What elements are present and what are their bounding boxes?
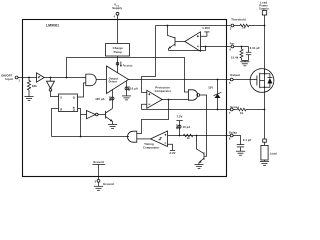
ground below load — [260, 161, 269, 165]
node IREF terminal (pin 6) — [230, 42, 235, 51]
svg-text:Ground: Ground — [103, 182, 114, 186]
resistor 15.4k — [231, 47, 243, 61]
node junction protection output — [168, 99, 170, 101]
svg-text:0.01 µF: 0.01 µF — [250, 46, 260, 50]
zener diode 15V — [208, 80, 221, 110]
wire latch Q output to AND gate — [78, 83, 86, 97]
wire protection output route to gate A2 top input — [137, 100, 169, 134]
svg-text:Comparator: Comparator — [143, 145, 160, 149]
wire VCC terminal to charge pump — [117, 15, 119, 43]
AND gate A2 mirrored — [128, 131, 137, 142]
buffer U3 input comparator — [37, 73, 45, 82]
svg-text:Ground: Ground — [93, 160, 104, 164]
wire timing comparator output to gate A2 — [137, 138, 151, 140]
resistor 30k — [27, 78, 37, 97]
svg-text:Supply: Supply — [259, 7, 269, 11]
node junction zener bottom on sense rail — [217, 109, 219, 111]
resistor 1k internal delay — [183, 134, 193, 140]
AND gate A1 — [86, 74, 96, 86]
chip boundary box — [23, 20, 227, 177]
svg-text:30k: 30k — [32, 84, 37, 88]
node junction feed to NAND rail — [66, 77, 68, 79]
wire 3.3V reference to timing comparator bottom input — [168, 144, 176, 155]
resistor 1k external sense — [233, 108, 264, 115]
wire inverter U6 to Q3 base — [98, 114, 105, 116]
node junction threshold drain rail — [264, 25, 266, 27]
svg-text:3.3V: 3.3V — [170, 151, 176, 155]
ground below delay capacitor — [236, 151, 245, 155]
node ON/OFF Input terminal (pin 1) — [1, 73, 20, 82]
wire sense rail — [142, 109, 231, 111]
svg-text:1k: 1k — [242, 26, 246, 30]
svg-text:Supply: Supply — [112, 6, 122, 10]
svg-text:1k: 1k — [187, 136, 191, 140]
svg-text:15V: 15V — [208, 86, 213, 90]
svg-text:Delay: Delay — [229, 131, 237, 135]
current source 10uA driver pulldown — [125, 81, 138, 96]
SR latch U5 — [59, 94, 78, 112]
svg-text:1.25V: 1.25V — [202, 26, 210, 30]
wire inverter to latch S input — [51, 91, 59, 96]
svg-text:7.5V: 7.5V — [177, 114, 183, 118]
node junction IREF emitter return — [205, 46, 207, 48]
wire T1 emitter return to IREF line — [169, 47, 206, 51]
wire lower rail to gate A2 — [52, 136, 129, 138]
ground below driver pulldown — [122, 96, 131, 100]
svg-text:Threshold: Threshold — [231, 17, 246, 21]
wire RC to ground — [242, 61, 249, 62]
wire threshold net W1 — [156, 25, 231, 27]
node Load Power Supply terminal — [259, 0, 269, 15]
svg-text:Output: Output — [109, 76, 119, 80]
svg-text:LM9061: LM9061 — [46, 24, 59, 28]
wire drain rail — [264, 15, 266, 74]
capacitor 0.1uF delay — [233, 136, 252, 152]
ground earth below ground pin — [94, 186, 103, 190]
wire buffer output to AND gate A1 — [44, 77, 86, 79]
wire protection comparator output to NAND — [162, 99, 188, 101]
wire IREF line to comparator bottom input — [201, 46, 231, 48]
transistor Q4 delay discharge NPN — [197, 136, 205, 165]
svg-text:Output: Output — [230, 73, 240, 77]
transistor Q1 external power MOSFET — [250, 69, 274, 93]
wire W1 down-left to protection comparator plus input — [142, 26, 156, 93]
node Ground terminal (pin 3) — [95, 179, 114, 186]
wire NAND feed rail — [67, 58, 189, 93]
transistor Q3 clamp NPN — [106, 108, 113, 124]
wire output to MOSFET gate — [233, 79, 257, 81]
wire NAND output to Q4 base — [200, 95, 207, 156]
wire sense rail to protection comparator minus input — [142, 104, 147, 109]
node load connector square — [263, 139, 267, 142]
wire source rail — [264, 92, 266, 139]
svg-text:S: S — [60, 95, 62, 99]
svg-text:Load: Load — [270, 152, 277, 156]
ground below Q3 — [108, 124, 117, 128]
current source 100uA — [95, 89, 114, 108]
svg-text:Charge: Charge — [113, 46, 124, 50]
svg-text:15.4k: 15.4k — [231, 56, 239, 60]
transistor T1 threshold sense — [168, 26, 185, 51]
node internal ground rail — [92, 160, 105, 179]
node junction W1 transistor T1 — [167, 25, 169, 27]
svg-text:R: R — [60, 108, 62, 112]
svg-text:100 µA: 100 µA — [95, 97, 105, 101]
op-amp U7 1.25V comparator (left facing) — [185, 32, 201, 52]
node junction buffer out to inverter — [50, 77, 52, 79]
node Output terminal (pin 5) — [229, 73, 240, 85]
NAND gate U9 — [188, 90, 199, 100]
svg-text:Input: Input — [5, 77, 12, 81]
wire gate A2 output to lower rail — [127, 136, 129, 138]
wire Qbar tap to inverter U6 — [81, 114, 87, 116]
node junction IREF RC — [241, 46, 243, 48]
wire delay rail — [168, 135, 231, 137]
load box — [261, 142, 277, 161]
wire 1.25V reference to comparator top input — [201, 26, 211, 36]
wire IREF to RC network — [234, 46, 249, 48]
svg-text:Comparator: Comparator — [155, 89, 172, 93]
wire driver output rail to MOSFET gate — [129, 79, 231, 81]
op-amp U8 protection comparator — [147, 86, 171, 109]
node junction input pulldown — [28, 77, 30, 79]
ground below 30k — [24, 97, 33, 101]
current source ISOURCE — [116, 56, 133, 73]
node Delay terminal (pin 8) — [229, 131, 237, 141]
svg-text:Pump: Pump — [114, 50, 122, 54]
inverter U6 to clamp transistor — [86, 111, 98, 119]
svg-text:Driver: Driver — [109, 80, 118, 84]
node junction delay rail 10uA — [179, 135, 181, 137]
svg-text:ON/OFF: ON/OFF — [1, 73, 12, 77]
op-amp U10 timing comparator (left facing) — [143, 131, 168, 149]
node VCC Supply terminal — [112, 3, 122, 19]
svg-text:0.1 µF: 0.1 µF — [243, 138, 252, 142]
resistor 1k external threshold — [234, 24, 265, 30]
node junction sense source rail — [264, 109, 266, 111]
ground below Q4 — [195, 165, 204, 169]
node junction Qbar rail — [80, 136, 82, 138]
svg-text:10 µA: 10 µA — [183, 125, 191, 129]
op-amp U1 Output Driver — [107, 66, 129, 94]
node junction zener top on output rail — [217, 79, 219, 81]
svg-text:1k: 1k — [240, 111, 244, 115]
node Sense terminal (pin 7) — [229, 105, 239, 115]
wire ON/OFF input to buffer — [18, 77, 37, 79]
node Threshold terminal (pin 2) — [230, 17, 246, 30]
svg-text:Q: Q — [73, 108, 75, 112]
wire latch R input from lower rail — [52, 109, 59, 137]
charge pump U2 — [106, 44, 130, 57]
capacitor 0.01uF — [246, 46, 260, 61]
svg-text:10 µA: 10 µA — [130, 87, 138, 91]
svg-text:Q: Q — [73, 95, 75, 99]
wire AND gate to output driver — [96, 79, 106, 81]
ground below IREF RC — [240, 62, 249, 66]
inverter U4 (down) — [47, 78, 55, 92]
wire latch Qbar down to lower rail — [78, 109, 81, 137]
current source 10uA delay with 7.5V source — [176, 114, 190, 135]
node junction delay rail Q4 collector — [196, 135, 198, 137]
